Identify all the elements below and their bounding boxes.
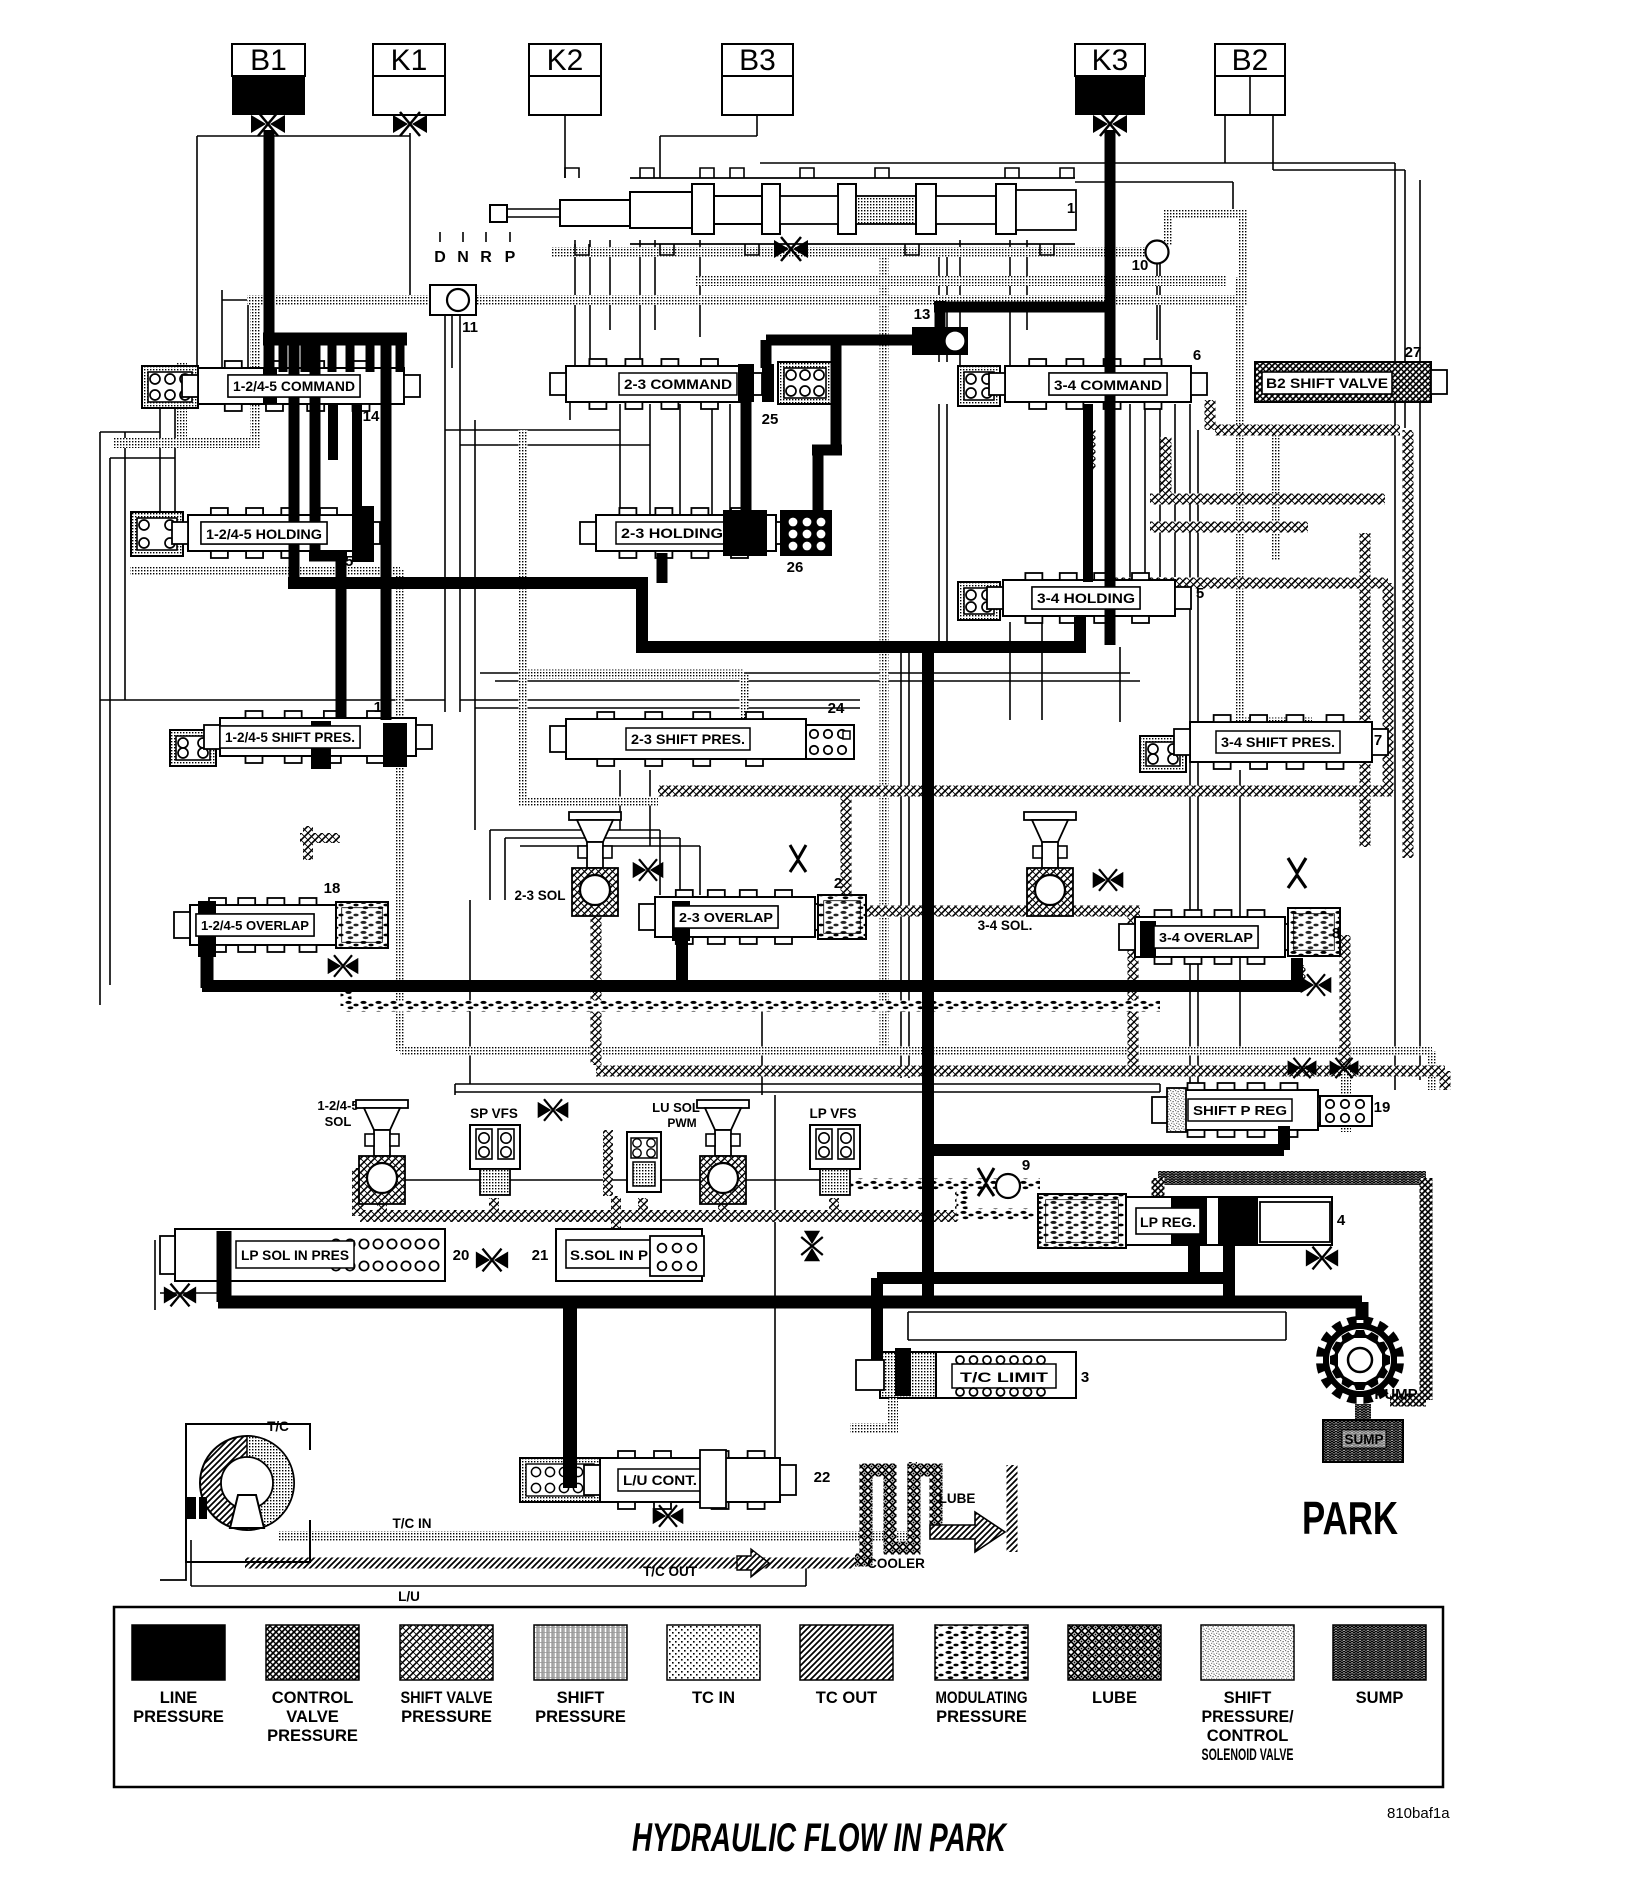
modulating pressure blob paths xyxy=(346,1001,1160,1012)
valve 3-4 OVERLAP xyxy=(1135,917,1285,957)
svg-text:B2 SHIFT VALVE: B2 SHIFT VALVE xyxy=(1266,376,1388,391)
orifice above 2-3 overlap xyxy=(633,859,664,881)
valve L/U CONT xyxy=(520,1458,600,1502)
svg-text:PUMP: PUMP xyxy=(1374,1386,1417,1403)
svg-text:COOLER: COOLER xyxy=(867,1556,925,1571)
line pressure black fill 1-2/4-5 shift pres xyxy=(383,723,407,767)
line pressure vertical A xyxy=(289,345,300,583)
svg-text:LUBE: LUBE xyxy=(1092,1689,1137,1707)
svg-text:K1: K1 xyxy=(391,44,428,77)
valve 1-2/4-5 SHIFT PRES xyxy=(170,730,216,766)
orifice below B1 xyxy=(251,112,285,136)
orifice under selector xyxy=(774,237,808,261)
svg-text:24: 24 xyxy=(828,700,845,717)
svg-text:9: 9 xyxy=(1022,1157,1030,1174)
pump to sump pipe xyxy=(1355,1404,1371,1420)
svg-text:B1: B1 xyxy=(250,44,287,77)
line pressure to L/U CONT xyxy=(563,1302,577,1488)
svg-text:LP SOL IN PRES: LP SOL IN PRES xyxy=(241,1248,349,1263)
svg-text:11: 11 xyxy=(462,319,478,336)
check valve arrows above 2-3 overlap xyxy=(790,845,806,872)
legend swatch TC OUT xyxy=(800,1625,893,1680)
line pressure bottom long horizontal xyxy=(218,1296,1362,1309)
svg-text:K2: K2 xyxy=(547,44,584,77)
svg-text:R: R xyxy=(480,249,492,266)
svg-text:7: 7 xyxy=(1374,732,1382,749)
svg-text:6: 6 xyxy=(1193,347,1201,364)
svg-text:T/C IN: T/C IN xyxy=(393,1516,432,1531)
orifice right of SP VFS xyxy=(538,1099,569,1121)
label window 3-4 HOLDING xyxy=(1032,587,1140,609)
valve 2-3 SHIFT PRES xyxy=(566,719,806,759)
wire network thin lines xyxy=(99,432,101,1005)
line pressure vertical C xyxy=(336,556,347,718)
solenoid supply manifold hatch bottom xyxy=(360,1210,960,1222)
svg-text:T/C LIMIT: T/C LIMIT xyxy=(960,1369,1049,1385)
line pressure vertical B xyxy=(310,345,321,560)
legend swatch SHIFT xyxy=(1201,1625,1294,1680)
line pressure from B1 down xyxy=(264,130,275,372)
legend swatch SUMP xyxy=(1333,1625,1426,1680)
dotted vertical right column xyxy=(1236,277,1245,722)
svg-text:SUMP: SUMP xyxy=(1356,1689,1404,1707)
clutch K3 box xyxy=(1075,44,1145,76)
clutch K1 box xyxy=(373,44,445,76)
svg-text:4: 4 xyxy=(1337,1212,1346,1229)
line pressure black cap 1-2/4-5 overlap left xyxy=(198,901,216,957)
svg-text:3-4 OVERLAP: 3-4 OVERLAP xyxy=(1159,930,1253,945)
line pressure black cap 3-4 overlap xyxy=(1140,921,1156,957)
check ball 10 circle xyxy=(1146,241,1169,264)
modulating plug right of 3-4 overlap xyxy=(1288,908,1340,956)
svg-text:LP REG.: LP REG. xyxy=(1140,1215,1196,1230)
orifice below K3 xyxy=(1093,112,1127,136)
legend swatch SHIFT VALVE xyxy=(400,1625,493,1680)
svg-text:PRESSURE: PRESSURE xyxy=(535,1708,626,1726)
line pressure riser to LP SOL IN PRES xyxy=(217,1231,232,1302)
line pressure LP reg outputs xyxy=(1188,1245,1200,1284)
pump gear xyxy=(1316,1316,1404,1404)
valve LP REG xyxy=(1038,1194,1126,1248)
valve 3-4 COMMAND xyxy=(958,366,1000,406)
valve 2-3 OVERLAP xyxy=(655,897,815,937)
svg-text:D: D xyxy=(434,249,446,266)
svg-text:PARK: PARK xyxy=(1302,1492,1398,1544)
svg-text:SP VFS: SP VFS xyxy=(470,1106,518,1121)
line pressure B1 black fill in command valve xyxy=(263,368,277,404)
label window LP SOL IN PRES xyxy=(236,1241,354,1268)
svg-text:PRESSURE: PRESSURE xyxy=(133,1708,224,1726)
svg-text:8: 8 xyxy=(1332,925,1340,942)
check ball 9 xyxy=(996,1174,1020,1198)
label window 3-4 COMMAND xyxy=(1049,373,1167,395)
svg-text:P: P xyxy=(505,249,516,266)
valve B2 SHIFT VALVE xyxy=(1255,362,1431,402)
svg-text:1-2/4-5 SHIFT PRES.: 1-2/4-5 SHIFT PRES. xyxy=(225,729,355,745)
svg-text:14: 14 xyxy=(363,408,380,425)
svg-text:27: 27 xyxy=(1405,344,1422,361)
tc input shaft lines xyxy=(225,1520,310,1562)
clutch B3 box xyxy=(722,44,793,76)
label window 1-2/4-5 SHIFT PRES xyxy=(220,726,360,748)
hatch line from damper region to S.SOL valve xyxy=(611,1196,621,1240)
valve SHIFT P REG xyxy=(1168,1090,1318,1130)
line pressure shift p reg feed xyxy=(928,1144,1284,1156)
orifices above shift p reg xyxy=(1288,1058,1317,1078)
svg-text:LINE: LINE xyxy=(160,1689,198,1707)
svg-text:18: 18 xyxy=(324,880,341,897)
dotted vertical from selector to lower left xyxy=(880,258,889,1051)
svg-text:3-4 HOLDING: 3-4 HOLDING xyxy=(1037,590,1135,606)
dotted long horizontal above solenoid row xyxy=(400,1047,1432,1056)
svg-text:25: 25 xyxy=(762,411,779,428)
line pressure long horizontal to 3-4 holding xyxy=(636,641,1086,653)
svg-text:2-3 SHIFT PRES.: 2-3 SHIFT PRES. xyxy=(631,731,745,747)
svg-text:LUBE: LUBE xyxy=(939,1491,976,1506)
T/C out diagonal path xyxy=(245,1558,855,1569)
svg-text:22: 22 xyxy=(814,1469,831,1486)
orifice 20 xyxy=(476,1249,508,1272)
svg-text:B2: B2 xyxy=(1232,44,1269,77)
clutch K2 box xyxy=(529,44,601,76)
check ball 13 box xyxy=(912,327,968,355)
svg-text:CONTROL: CONTROL xyxy=(1207,1727,1289,1745)
svg-text:SHIFT VALVE: SHIFT VALVE xyxy=(401,1689,493,1707)
plug box right of 2-3 shift pres xyxy=(806,725,854,759)
line pressure jog right of 2-3 command xyxy=(831,344,842,450)
orifice below K1 xyxy=(393,112,427,136)
svg-text:SOL: SOL xyxy=(325,1114,352,1129)
control valve pressure frame around pump xyxy=(1158,1171,1426,1185)
valve 3-4 SHIFT PRES xyxy=(1140,736,1186,772)
legend box xyxy=(114,1607,1443,1787)
orifice below L/U CONT xyxy=(653,1505,684,1527)
check ball 11 box xyxy=(430,285,476,315)
line pressure from K3 down through 3-4 command xyxy=(1105,130,1116,645)
svg-text:PRESSURE: PRESSURE xyxy=(267,1727,358,1745)
valve 2-3 COMMAND xyxy=(566,366,746,402)
line pressure elbow down xyxy=(636,578,648,647)
svg-text:3-4 SOL.: 3-4 SOL. xyxy=(978,918,1033,933)
spring plug right of shift p reg xyxy=(1320,1096,1372,1126)
svg-text:T/C OUT: T/C OUT xyxy=(643,1564,698,1579)
svg-text:N: N xyxy=(457,249,469,266)
svg-text:PRESSURE/: PRESSURE/ xyxy=(1202,1708,1294,1726)
svg-text:2-3 SOL: 2-3 SOL xyxy=(514,888,565,903)
orifice below 3-4 overlap plug xyxy=(1301,974,1332,996)
manual selector valve 1 xyxy=(490,205,507,222)
legend swatch LUBE xyxy=(1068,1625,1161,1680)
svg-text:TC IN: TC IN xyxy=(692,1689,735,1707)
tc out arrow small xyxy=(737,1549,769,1577)
svg-text:SOLENOID VALVE: SOLENOID VALVE xyxy=(1202,1746,1294,1764)
line pressure stub up to 3-4 holding xyxy=(1074,617,1086,652)
valve 2-3 HOLDING xyxy=(596,515,776,551)
valve 1-2/4-5 COMMAND xyxy=(142,366,198,408)
orifice below 4 xyxy=(1306,1247,1338,1270)
line pressure black fills 2-3 command right xyxy=(738,364,754,402)
line pressure second vertical to 3-4 holding xyxy=(1083,404,1093,582)
svg-text:B3: B3 xyxy=(739,44,776,77)
line pressure jog near holding 15 xyxy=(309,551,347,562)
line pressure header above 1-2/4-5 command xyxy=(263,333,407,346)
legend swatch SHIFT xyxy=(534,1625,627,1680)
svg-text:19: 19 xyxy=(1374,1099,1391,1116)
shift valve pressure hatch network right side xyxy=(1215,425,1400,436)
line pressure long horizontal mid-left xyxy=(288,577,648,589)
svg-text:3-4 COMMAND: 3-4 COMMAND xyxy=(1054,377,1162,393)
solenoid 2-3 SOL xyxy=(569,812,621,820)
valve 3-4 HOLDING xyxy=(958,582,1000,620)
svg-text:PRESSURE: PRESSURE xyxy=(936,1708,1027,1726)
sump box xyxy=(1323,1420,1403,1462)
line pressure black cap 2-3 overlap xyxy=(672,901,690,941)
cooler coil path xyxy=(855,1470,936,1560)
hatch path down from B2 shift valve xyxy=(1205,400,1216,430)
svg-text:PRESSURE: PRESSURE xyxy=(401,1708,492,1726)
svg-text:SHIFT P REG: SHIFT P REG xyxy=(1193,1103,1287,1118)
svg-text:2-3 OVERLAP: 2-3 OVERLAP xyxy=(679,910,773,925)
clutch B2 box xyxy=(1215,44,1285,76)
svg-text:1-2/4-5 HOLDING: 1-2/4-5 HOLDING xyxy=(206,526,322,542)
legend swatch TC IN xyxy=(667,1625,760,1680)
svg-text:1-2/4-5: 1-2/4-5 xyxy=(317,1098,358,1113)
line pressure stub from 2-3 overlap xyxy=(676,941,688,986)
line pressure stub to 3-4 overlap xyxy=(1291,958,1303,990)
svg-text:PWM: PWM xyxy=(667,1116,696,1130)
valve S.SOL IN P xyxy=(556,1229,702,1281)
svg-text:5: 5 xyxy=(1196,585,1204,602)
selector detent labels D N R P xyxy=(439,232,441,242)
svg-text:K3: K3 xyxy=(1092,44,1129,77)
svg-text:3: 3 xyxy=(1081,1369,1089,1386)
svg-text:LP VFS: LP VFS xyxy=(809,1106,856,1121)
valve LP SOL IN PRES xyxy=(175,1229,445,1281)
svg-text:HYDRAULIC FLOW IN PARK: HYDRAULIC FLOW IN PARK xyxy=(632,1816,1008,1860)
legend swatch LINE xyxy=(132,1625,225,1680)
line pressure main vertical right xyxy=(922,645,934,1302)
svg-text:SHIFT: SHIFT xyxy=(1224,1689,1272,1707)
svg-text:20: 20 xyxy=(453,1247,470,1264)
modulating plug right of 1-2/4-5 overlap xyxy=(336,902,388,948)
control pressure dotted path item 10 loop xyxy=(551,247,1147,257)
svg-text:CONTROL: CONTROL xyxy=(272,1689,354,1707)
line pressure comb above command valve xyxy=(279,339,288,372)
label window 1-2/4-5 HOLDING xyxy=(201,522,327,544)
svg-text:MODULATING: MODULATING xyxy=(936,1689,1028,1707)
legend swatch CONTROL xyxy=(266,1625,359,1680)
svg-text:VALVE: VALVE xyxy=(286,1708,339,1726)
svg-text:10: 10 xyxy=(1132,257,1149,274)
svg-text:S.SOL IN P: S.SOL IN P xyxy=(570,1248,648,1263)
svg-text:21: 21 xyxy=(532,1247,549,1264)
label window 2-3 OVERLAP xyxy=(674,906,778,928)
svg-text:1-2/4-5 OVERLAP: 1-2/4-5 OVERLAP xyxy=(201,918,309,933)
dotted drain below T/C LIMIT xyxy=(850,1398,893,1428)
valve 1-2/4-5 HOLDING xyxy=(131,512,183,556)
clutch B1 box xyxy=(232,44,305,76)
torque converter T/C xyxy=(186,1424,310,1562)
svg-text:2: 2 xyxy=(834,875,842,892)
svg-text:13: 13 xyxy=(914,306,931,323)
svg-text:T/C: T/C xyxy=(267,1419,289,1434)
legend swatch MODULATING xyxy=(935,1625,1028,1680)
solenoid 3-4 SOL xyxy=(1024,812,1076,820)
valve T/C LIMIT xyxy=(880,1352,936,1398)
svg-text:26: 26 xyxy=(787,559,804,576)
line pressure vertical D xyxy=(381,336,392,720)
label window 1-2/4-5 OVERLAP xyxy=(196,914,314,936)
line pressure check 13 connections xyxy=(935,301,946,331)
svg-text:2-3 HOLDING: 2-3 HOLDING xyxy=(621,525,723,541)
orifice right of S.SOL valve xyxy=(801,1231,823,1262)
T/C in dotted path xyxy=(278,1531,912,1541)
svg-text:L/U: L/U xyxy=(398,1589,420,1604)
svg-text:LU SOL: LU SOL xyxy=(652,1100,700,1115)
svg-text:3-4 SHIFT PRES.: 3-4 SHIFT PRES. xyxy=(1221,734,1335,750)
orifice left of 3-4 overlap xyxy=(1093,869,1124,891)
orifice left of LP SOL IN PRES xyxy=(164,1284,196,1307)
svg-text:SUMP: SUMP xyxy=(1344,1432,1383,1447)
line pressure vertical E below command xyxy=(328,404,338,460)
svg-text:1-2/4-5 COMMAND: 1-2/4-5 COMMAND xyxy=(233,378,355,394)
orifice below 1-2/4-5 overlap xyxy=(328,955,359,977)
valve 1-2/4-5 OVERLAP xyxy=(190,905,336,945)
line pressure black fill 2-3 holding right xyxy=(723,510,767,556)
svg-text:TC OUT: TC OUT xyxy=(816,1689,877,1707)
svg-text:2-3 COMMAND: 2-3 COMMAND xyxy=(624,376,732,392)
lube arrow xyxy=(930,1512,1005,1552)
label window 3-4 OVERLAP xyxy=(1154,926,1258,948)
svg-text:810baf1a: 810baf1a xyxy=(1387,1805,1450,1822)
line pressure stub 2-3 holding to header xyxy=(657,553,668,583)
modulating plug right of 2-3 overlap xyxy=(818,895,866,939)
hatch left stub above 1-2/4-5 overlap xyxy=(303,826,313,860)
svg-text:L/U CONT.: L/U CONT. xyxy=(623,1473,697,1488)
check valve arrows above 3-4 overlap xyxy=(1288,858,1306,888)
svg-text:SHIFT: SHIFT xyxy=(557,1689,605,1707)
line pressure long horizontal overlap row xyxy=(202,980,1303,992)
line pressure to pump xyxy=(1356,1302,1369,1320)
svg-text:1: 1 xyxy=(1067,200,1075,217)
label window 1-2/4-5 COMMAND xyxy=(228,375,360,397)
